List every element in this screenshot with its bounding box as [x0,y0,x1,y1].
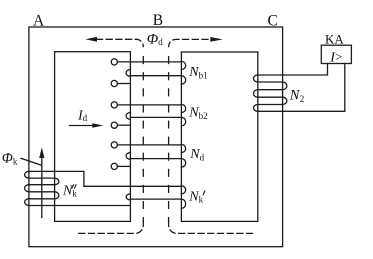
winding N2 crossing wire level4 [258,104,283,106]
winding Nk'' crossing wire level2 [29,184,55,186]
winding Nb1 wire 2 [130,75,181,77]
winding N2 crossing wire level2 [258,89,283,91]
winding Nb2 wire 3 [117,124,130,126]
winding Nb1 wire 1 [117,61,181,63]
winding Nb2 right bump 1 [181,104,185,112]
svg-text:KA: KA [325,31,344,46]
winding Nk'' left bump 2 [25,185,29,192]
winding Nb1 terminal circle 1 [111,59,117,65]
winding Nb2 terminal circle 1 [111,102,117,108]
winding Nk'' crossing wire level4 [29,198,55,200]
winding Nd terminal circle 2 [111,163,117,169]
winding Nd wire 2 [130,158,181,160]
winding N2 left bump 3 [254,105,258,112]
flux arrow Phi-k head [39,147,44,158]
winding Nb1 terminal circle 2 [111,80,117,86]
winding Nb1 right bump 1 [181,61,185,69]
winding Nk' wire 2 [130,198,181,200]
wire Nk'' bottom to Nk' bottom [29,205,130,207]
winding Nk'' left bump 1 [25,171,29,178]
current Id arrow [70,125,94,127]
winding Nb2 terminal circle 2 [111,122,117,128]
winding Nk' right bump 2 [181,199,185,208]
flux arrow left [85,37,97,42]
winding Nk' left bump [126,194,130,200]
svg-text:I>: I> [329,49,342,65]
winding Nb2 wire 1 [117,104,181,106]
flux path dashed right vertical [168,48,170,222]
flux path dashed left bottom branch [78,221,143,234]
flux arrow right [210,37,223,42]
svg-text:B: B [153,12,163,29]
core outer limb rectangle [29,27,283,247]
winding Nd right bump 2 [181,159,185,168]
winding N2 crossing wire level3 [258,96,283,98]
winding Nk'' right bump 1 [55,178,59,185]
winding Nd wire 3 [117,165,130,167]
leader line Phi-k [21,158,42,165]
core right window [181,52,257,221]
winding Nb2 wire 2 [130,116,181,118]
core left window [55,52,131,222]
winding Nd terminal circle 1 [111,142,117,148]
winding Nb1 right bump 2 [181,76,185,85]
svg-text:C: C [268,12,278,29]
winding Nd left bump [126,153,130,160]
winding Nk' right bump 1 [181,186,185,194]
winding N2 right bump 2 [283,97,287,104]
winding Nk'' crossing wire level1 [29,177,55,179]
wire N2 top to relay [258,64,328,76]
winding Nb1 left bump [126,70,130,77]
flux path dashed left top branch [97,39,144,46]
relay KA box [321,45,351,63]
winding N2 right bump 1 [283,82,287,90]
flux path dashed right bottom branch [169,221,253,234]
winding Nb2 left bump [126,113,130,120]
flux arrow Phi-k line [41,157,43,218]
wire N2 bottom to relay [258,64,345,112]
flux path dashed right top branch [169,39,208,46]
prime mark of Nk' [203,191,205,195]
winding N2 left bump 1 [253,75,257,82]
winding Nk'' crossing wire level3 [29,191,55,193]
svg-text:A: A [33,12,45,29]
wire Nk'' top to Nk' (step) [29,171,182,186]
winding Nd right bump 1 [181,144,185,152]
double prime mark of Nk'' [72,185,74,189]
winding Nk'' right bump 2 [55,192,59,199]
winding Nd wire 1 [117,144,181,146]
winding Nk'' left bump 3 [25,199,29,206]
flux path dashed left vertical [142,48,144,222]
winding N2 crossing wire level1 [258,81,283,83]
winding N2 left bump 2 [253,90,257,98]
winding Nb2 right bump 2 [181,117,185,126]
winding Nb1 wire 3 [117,83,130,85]
